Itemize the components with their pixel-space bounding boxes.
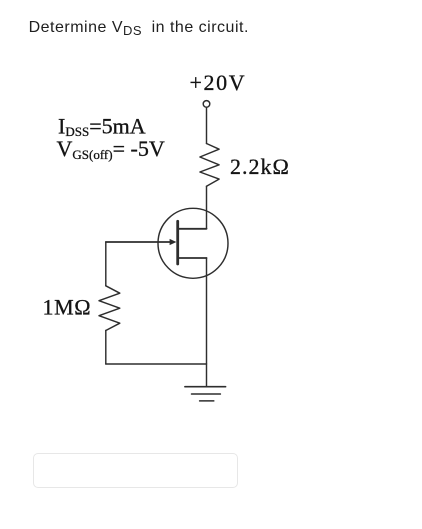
wire gate down to R2 <box>105 242 107 286</box>
title text <box>29 19 249 37</box>
svg-text:+20V: +20V <box>190 70 247 95</box>
resistor R2 value label 1MΩ <box>43 295 92 320</box>
transistor Q1 gate lead <box>106 241 172 243</box>
resistor R2 1MΩ zigzag <box>99 286 120 331</box>
resistor R1 2.2kΩ zigzag <box>200 144 219 187</box>
resistor R1 value label 2.2kΩ <box>230 154 290 179</box>
transistor Q1 source stub <box>178 257 207 259</box>
label VGS(off)=-5V <box>57 136 165 162</box>
wire source down <box>206 258 208 387</box>
svg-text:VGS(off)= -5V: VGS(off)= -5V <box>57 136 165 162</box>
transistor Q1 gate arrowhead <box>170 239 177 245</box>
terminal node +20V <box>203 101 210 108</box>
transistor Q1 JFET body circle <box>158 208 228 278</box>
wire supply to resistor <box>206 107 208 143</box>
wire bottom horizontal <box>106 363 207 365</box>
node +20V label <box>190 70 247 95</box>
wire drain <box>206 186 208 229</box>
ground symbol <box>185 387 226 401</box>
wire R2 bottom <box>105 331 107 365</box>
answer input box <box>33 453 238 488</box>
transistor Q1 drain stub <box>178 228 207 230</box>
svg-text:1MΩ: 1MΩ <box>43 295 92 320</box>
transistor Q1 channel bar <box>176 221 179 264</box>
svg-text:2.2kΩ: 2.2kΩ <box>230 154 290 179</box>
label IDSS=5mA <box>58 113 146 139</box>
